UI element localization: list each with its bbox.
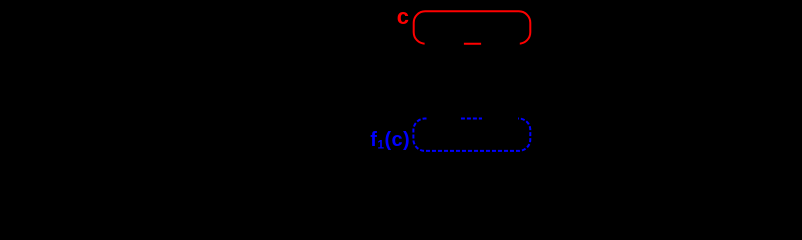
svg-text:f1(c): f1(c) bbox=[370, 129, 410, 152]
svg-text:c: c bbox=[397, 4, 409, 29]
